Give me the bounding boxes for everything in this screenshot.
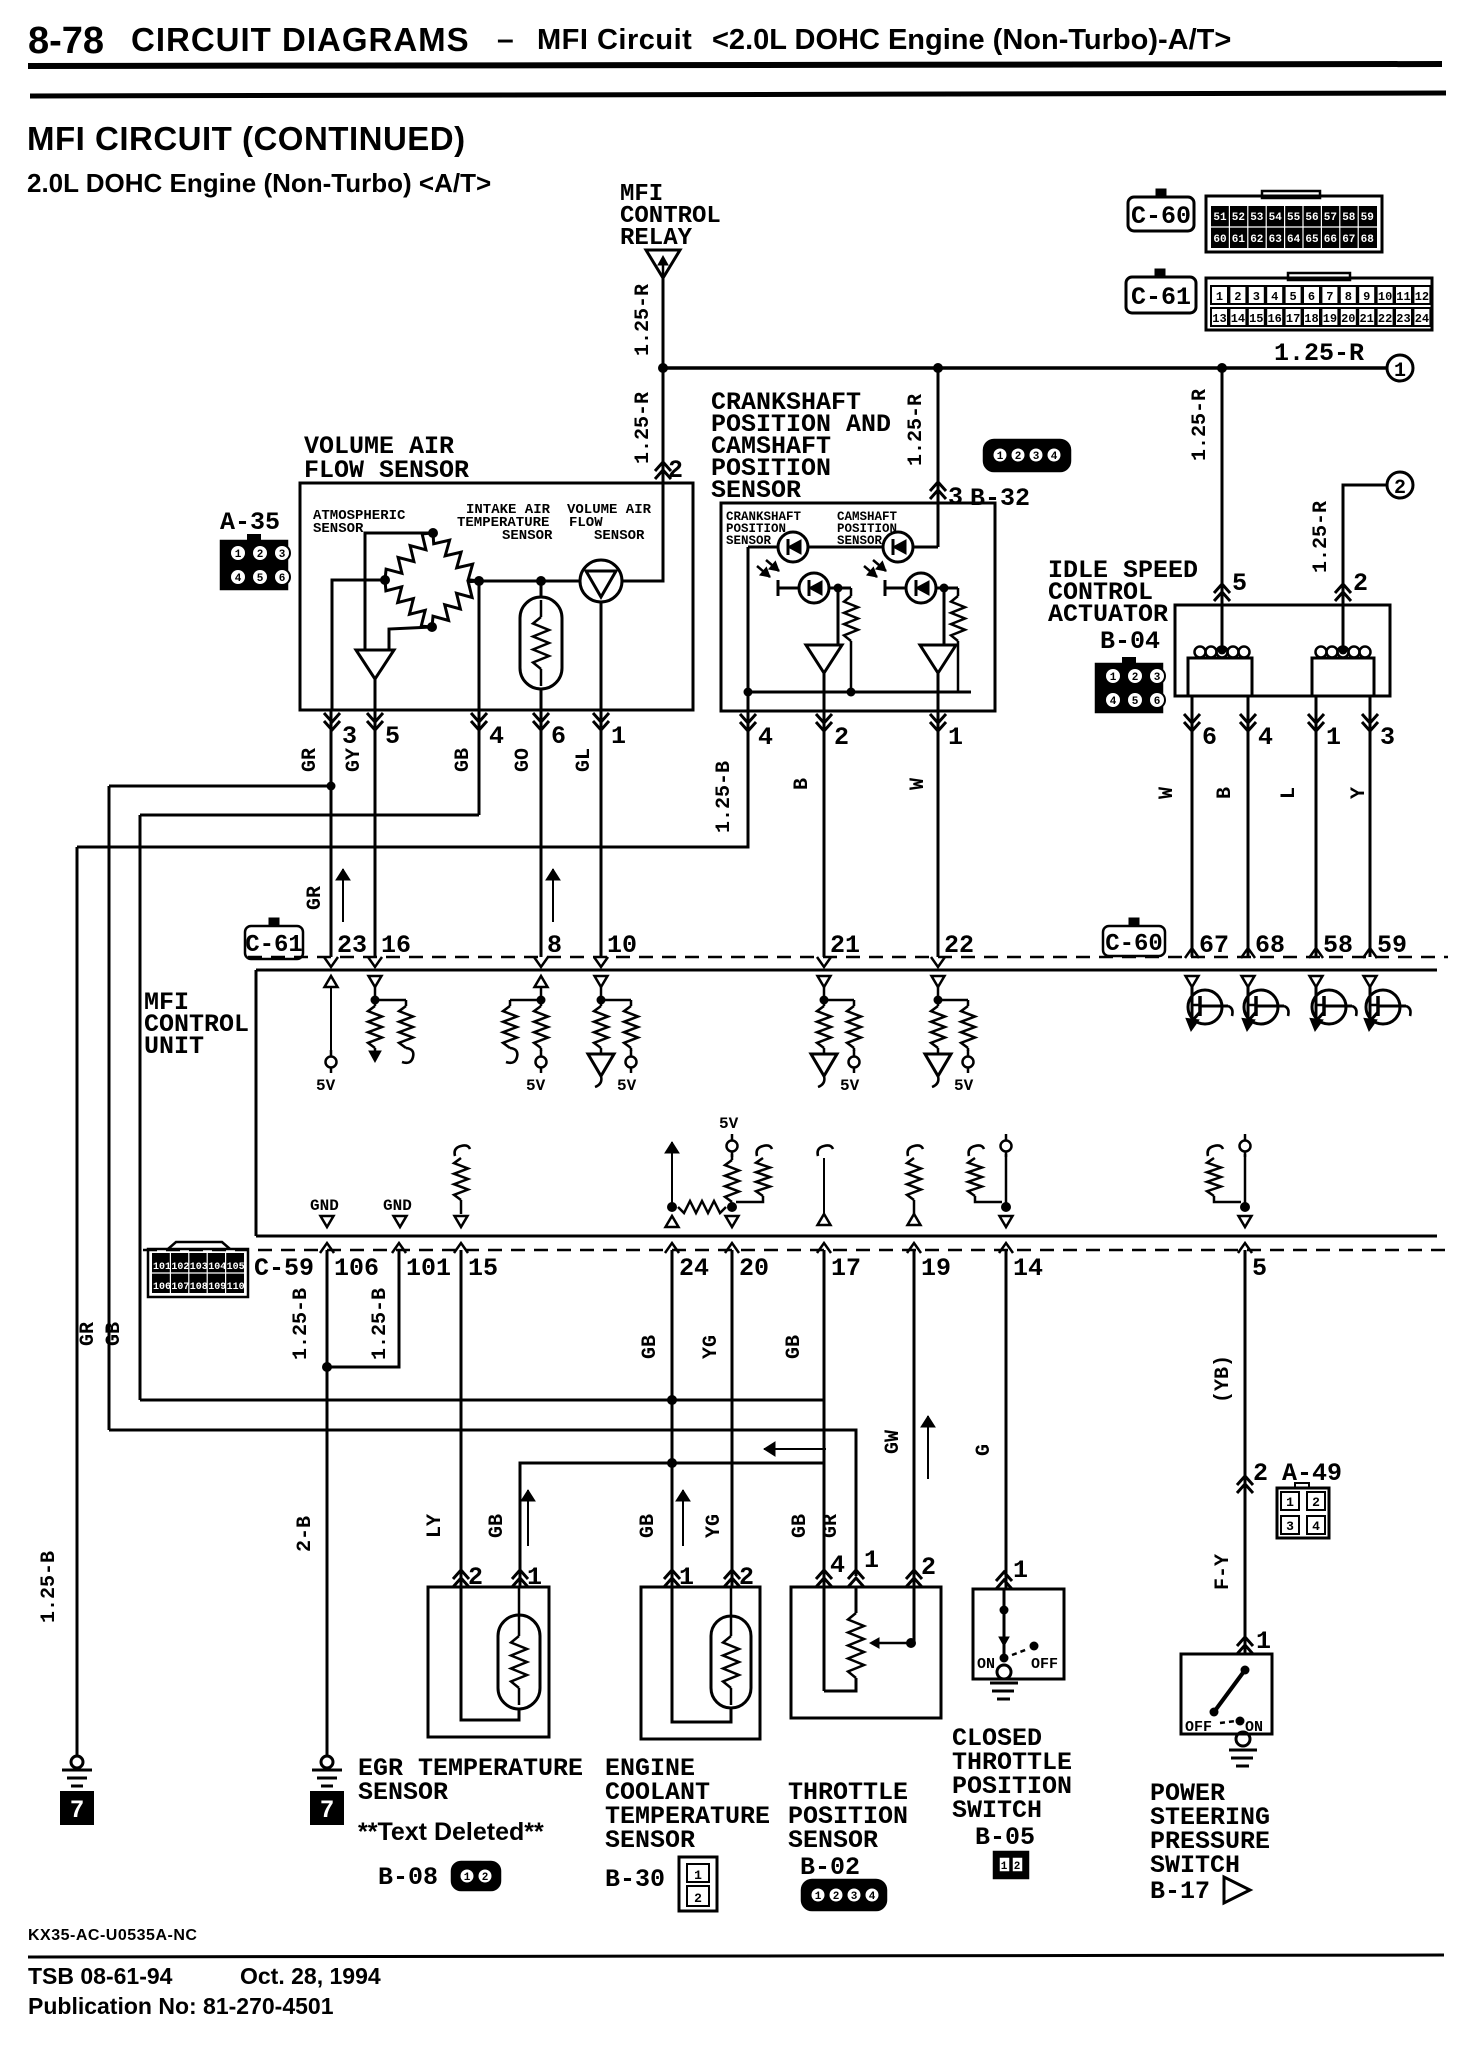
wire GY down to pin 16 bbox=[374, 710, 377, 957]
svg-text:16: 16 bbox=[1267, 312, 1281, 326]
svg-text:1: 1 bbox=[1013, 1556, 1028, 1585]
svg-text:GR: GR bbox=[299, 748, 322, 772]
wire GB VAF pin4 down bbox=[478, 710, 481, 815]
wire pin4 riser to LED bbox=[748, 546, 778, 549]
svg-text:21: 21 bbox=[830, 931, 860, 960]
power steering pressure switch box bbox=[1181, 1654, 1272, 1734]
coolant thermistor bbox=[711, 1587, 751, 1708]
svg-text:2.0L DOHC Engine (Non-Turbo) <: 2.0L DOHC Engine (Non-Turbo) <A/T> bbox=[27, 168, 491, 198]
wire resistor tap cam bbox=[944, 587, 958, 590]
CTS switch bbox=[999, 1589, 1039, 1663]
closed throttle position switch box bbox=[973, 1589, 1064, 1679]
svg-text:SWITCH: SWITCH bbox=[1150, 1851, 1240, 1880]
pin 1 arrow bbox=[1308, 714, 1324, 723]
svg-text:SENSOR: SENSOR bbox=[313, 521, 364, 537]
wire bridge top to op-amp bbox=[365, 533, 433, 650]
bridge node top bbox=[428, 528, 438, 538]
connector B-05 bbox=[994, 1852, 1028, 1878]
wire pin 20 YG down bbox=[731, 1250, 734, 1587]
svg-text:4: 4 bbox=[1312, 1519, 1320, 1534]
crankshaft camshaft sensor box bbox=[721, 503, 995, 711]
svg-text:Y: Y bbox=[1348, 787, 1371, 799]
svg-text:GR: GR bbox=[820, 1514, 843, 1538]
svg-text:15: 15 bbox=[1249, 312, 1263, 326]
svg-text:1.25-R: 1.25-R bbox=[632, 392, 655, 464]
bridge node left bbox=[380, 575, 390, 585]
control unit bottom edge bbox=[256, 1235, 1437, 1238]
svg-text:108: 108 bbox=[190, 1282, 208, 1293]
svg-text:1.25-R: 1.25-R bbox=[1310, 501, 1333, 573]
atmospheric sensor label bbox=[313, 508, 406, 537]
svg-text:4: 4 bbox=[1051, 451, 1058, 463]
connector label C-60 bbox=[1128, 189, 1194, 231]
EGR temperature sensor box bbox=[428, 1587, 549, 1737]
svg-text:2: 2 bbox=[1014, 1861, 1021, 1873]
PSP ground bbox=[1229, 1732, 1257, 1766]
svg-text:W: W bbox=[907, 778, 930, 790]
svg-text:60: 60 bbox=[1213, 234, 1226, 246]
svg-text:1.25-R: 1.25-R bbox=[1189, 389, 1212, 461]
svg-text:6: 6 bbox=[1154, 696, 1161, 708]
svg-text:GB: GB bbox=[452, 748, 475, 772]
junction bbox=[658, 363, 668, 373]
svg-text:1: 1 bbox=[948, 723, 963, 752]
svg-text:103: 103 bbox=[190, 1262, 208, 1273]
coolant pin 2 arrow bbox=[724, 1578, 740, 1587]
output transistor 67 bbox=[1186, 976, 1233, 1031]
svg-text:23: 23 bbox=[1396, 312, 1410, 326]
svg-text:3: 3 bbox=[1380, 723, 1395, 752]
wire GL down to pin 10 bbox=[600, 710, 603, 957]
pin 3 arrow bbox=[930, 490, 946, 499]
svg-text:13: 13 bbox=[1212, 312, 1226, 326]
C-59 pin 19 arrow bbox=[907, 1243, 921, 1253]
wire bridge right node bbox=[479, 580, 580, 583]
wire GR horizontal to TPS bbox=[109, 1430, 856, 1576]
wire pin 4 riser bbox=[747, 547, 750, 711]
MFI control unit label bbox=[144, 988, 249, 1061]
footer rule bbox=[28, 1955, 1444, 1957]
svg-text:YG: YG bbox=[700, 1335, 723, 1359]
svg-text:58: 58 bbox=[1342, 212, 1356, 224]
svg-text:ON: ON bbox=[977, 1656, 995, 1673]
svg-text:FLOW SENSOR: FLOW SENSOR bbox=[304, 456, 469, 485]
svg-text:B: B bbox=[791, 778, 814, 790]
signal arrow GW bbox=[927, 1416, 929, 1479]
svg-text:A-49: A-49 bbox=[1282, 1459, 1342, 1488]
connector B-04 bbox=[1096, 658, 1165, 712]
svg-text:5: 5 bbox=[1232, 569, 1247, 598]
ISC pin 3 wire stub bbox=[1369, 696, 1372, 711]
svg-text:101: 101 bbox=[153, 1262, 171, 1273]
svg-text:4: 4 bbox=[869, 1891, 876, 1903]
svg-text:22: 22 bbox=[944, 931, 974, 960]
wire node to comparator bbox=[837, 588, 840, 645]
crankshaft LED bbox=[778, 532, 808, 562]
svg-text:9: 9 bbox=[1363, 290, 1370, 304]
svg-text:57: 57 bbox=[1324, 212, 1337, 224]
camshaft photodiode bbox=[885, 573, 936, 603]
junction bbox=[322, 1362, 332, 1372]
throttle position sensor box bbox=[791, 1587, 941, 1718]
svg-text:C-60: C-60 bbox=[1131, 202, 1191, 231]
ground symbol 7 mid bbox=[311, 1792, 343, 1824]
svg-text:L: L bbox=[1278, 787, 1301, 799]
svg-text:4: 4 bbox=[1271, 290, 1278, 304]
C-59 pin 20 arrow bbox=[725, 1243, 739, 1253]
svg-text:GND: GND bbox=[310, 1197, 339, 1215]
pin 1 arrow bbox=[930, 714, 946, 723]
engine coolant temperature sensor box bbox=[641, 1587, 760, 1739]
svg-text:62: 62 bbox=[1250, 234, 1263, 246]
wire pin 15 LY down bbox=[460, 1250, 463, 1587]
svg-text:B-17: B-17 bbox=[1150, 1877, 1210, 1906]
svg-text:68: 68 bbox=[1361, 234, 1375, 246]
wire ISC pin4 down to 68 bbox=[1247, 711, 1250, 957]
junction bbox=[327, 782, 336, 791]
junction bbox=[536, 576, 546, 586]
svg-text:1: 1 bbox=[1326, 723, 1341, 752]
A-49 pin 2 arrow bbox=[1237, 1484, 1253, 1493]
svg-text:59: 59 bbox=[1377, 931, 1407, 960]
svg-text:G: G bbox=[973, 1444, 996, 1456]
svg-text:53: 53 bbox=[1250, 212, 1264, 224]
svg-text:GB: GB bbox=[789, 1514, 812, 1538]
crankshaft comparator bbox=[806, 645, 842, 673]
svg-text:GB: GB bbox=[639, 1335, 662, 1359]
wire resistor tap bbox=[838, 587, 851, 590]
wire bus to ISC pin 5 bbox=[1221, 368, 1224, 605]
svg-text:14: 14 bbox=[1231, 312, 1245, 326]
svg-text:OFF: OFF bbox=[1031, 1656, 1058, 1673]
C-59 pin 5 arrow bbox=[1238, 1243, 1252, 1253]
crankshaft and camshaft position sensor label bbox=[711, 388, 891, 505]
connector label C-61 bbox=[1126, 269, 1196, 313]
svg-text:24: 24 bbox=[679, 1254, 709, 1283]
volume air flow sensor box bbox=[300, 483, 693, 710]
pin 22 input network bbox=[925, 976, 975, 1087]
engine coolant temperature sensor label bbox=[605, 1754, 770, 1855]
wire pin 19 GW down bbox=[913, 1250, 916, 1587]
svg-text:104: 104 bbox=[208, 1262, 226, 1273]
footer TSB line bbox=[28, 1963, 381, 1989]
svg-text:4: 4 bbox=[489, 722, 504, 751]
pin 2 arrow bbox=[816, 714, 832, 723]
signal arrow GB EGR bbox=[527, 1490, 529, 1546]
svg-text:Oct. 28, 1994: Oct. 28, 1994 bbox=[240, 1963, 381, 1989]
header underline rule bbox=[28, 64, 1442, 66]
throttle position sensor label bbox=[788, 1778, 908, 1855]
connector B-32 bbox=[984, 440, 1070, 471]
svg-text:2: 2 bbox=[921, 1553, 936, 1582]
svg-text:CIRCUIT DIAGRAMS: CIRCUIT DIAGRAMS bbox=[131, 21, 470, 58]
svg-text:1.25-B: 1.25-B bbox=[38, 1551, 61, 1623]
svg-text:15: 15 bbox=[468, 1254, 498, 1283]
wire ISC pin3 down to 59 bbox=[1369, 711, 1372, 957]
svg-text:1: 1 bbox=[997, 451, 1004, 463]
wire GR left vertical bbox=[108, 786, 111, 1430]
wire bridge bottom to op-amp bbox=[389, 627, 432, 650]
svg-text:GB: GB bbox=[783, 1335, 806, 1359]
svg-text:19: 19 bbox=[1323, 312, 1337, 326]
pin 3 arrow bbox=[324, 713, 340, 722]
output transistor 58 bbox=[1310, 976, 1357, 1031]
svg-text:18: 18 bbox=[1304, 312, 1318, 326]
svg-text:1.25-R: 1.25-R bbox=[632, 284, 655, 356]
sensor ground bus bbox=[748, 691, 971, 694]
C-61 pin 10 arrow bbox=[594, 957, 608, 967]
svg-text:58: 58 bbox=[1323, 931, 1353, 960]
svg-text:–: – bbox=[497, 23, 514, 56]
svg-text:102: 102 bbox=[171, 1262, 189, 1273]
svg-text:51: 51 bbox=[1213, 212, 1227, 224]
svg-text:SENSOR: SENSOR bbox=[502, 528, 553, 544]
volume air flow sensor label bbox=[304, 432, 469, 485]
svg-text:4: 4 bbox=[1110, 696, 1117, 708]
svg-text:101: 101 bbox=[406, 1254, 451, 1283]
MFI control relay off-page triangle bbox=[646, 250, 680, 278]
svg-text:59: 59 bbox=[1361, 212, 1374, 224]
camshaft position sensor inner label bbox=[837, 510, 898, 548]
svg-text:C-60: C-60 bbox=[1105, 931, 1163, 958]
svg-text:3: 3 bbox=[948, 483, 963, 512]
wire 1.25-B left vertical bbox=[76, 847, 79, 1756]
wire pin 24 GB down bbox=[671, 1250, 674, 1587]
C-61 pin 23 arrow bbox=[324, 957, 338, 967]
C-59 pin 17 arrow bbox=[817, 1243, 831, 1253]
pin 23 pull-up to 5V bbox=[325, 976, 338, 1073]
svg-text:1: 1 bbox=[235, 549, 242, 561]
svg-text:24: 24 bbox=[1415, 312, 1429, 326]
svg-text:2: 2 bbox=[1353, 569, 1368, 598]
svg-text:1: 1 bbox=[1394, 360, 1406, 383]
intake air temperature sensor label bbox=[457, 502, 553, 544]
svg-text:GR: GR bbox=[304, 886, 327, 910]
EGR thermistor bbox=[498, 1587, 540, 1709]
bridge node bottom bbox=[427, 622, 437, 632]
svg-text:SENSOR: SENSOR bbox=[358, 1778, 448, 1807]
junction bbox=[933, 363, 943, 373]
svg-text:2: 2 bbox=[1132, 672, 1139, 684]
EGR pin 1 arrow bbox=[512, 1578, 528, 1587]
svg-text:17: 17 bbox=[1286, 312, 1300, 326]
svg-text:63: 63 bbox=[1269, 234, 1283, 246]
svg-text:GB: GB bbox=[486, 1514, 509, 1538]
svg-text:54: 54 bbox=[1269, 212, 1283, 224]
pin 14 pull-up bbox=[968, 1134, 1013, 1227]
junction bbox=[940, 584, 949, 593]
svg-text:3: 3 bbox=[279, 549, 286, 561]
svg-text:C-59: C-59 bbox=[254, 1254, 314, 1283]
wire photodiode node cam bbox=[936, 587, 944, 590]
svg-text:SWITCH: SWITCH bbox=[952, 1796, 1042, 1825]
connector plane C-59 dashed bbox=[143, 1249, 1448, 1252]
idle speed control actuator label bbox=[1048, 556, 1198, 629]
svg-text:6: 6 bbox=[1308, 290, 1315, 304]
junction bbox=[847, 688, 856, 697]
svg-text:8-78: 8-78 bbox=[28, 20, 104, 62]
svg-text:4: 4 bbox=[1258, 723, 1273, 752]
svg-text:C-61: C-61 bbox=[245, 932, 303, 959]
svg-text:2: 2 bbox=[257, 549, 264, 561]
connector C-61 pin grid bbox=[1206, 278, 1432, 330]
svg-text:1.25-B: 1.25-B bbox=[369, 1288, 392, 1360]
svg-text:1: 1 bbox=[864, 1546, 879, 1575]
svg-text:1: 1 bbox=[464, 1872, 471, 1884]
wire pin 14 G down bbox=[1005, 1250, 1008, 1589]
pin 4 arrow bbox=[740, 714, 756, 723]
svg-text:1: 1 bbox=[1110, 672, 1117, 684]
wire node to comparator cam bbox=[943, 588, 946, 645]
wire comparator to pin 2 bbox=[823, 673, 826, 711]
svg-text:GO: GO bbox=[512, 748, 535, 772]
TPS wiper bbox=[870, 1587, 916, 1648]
coil body A bbox=[1188, 605, 1252, 696]
svg-text:MFI Circuit: MFI Circuit bbox=[537, 24, 692, 56]
wire junction to intake air temp sensor bbox=[540, 581, 543, 598]
wire photodiode node bbox=[829, 587, 838, 590]
control unit left edge bbox=[255, 970, 258, 1236]
pin 19 resistor bbox=[907, 1145, 923, 1225]
svg-text:23: 23 bbox=[337, 931, 367, 960]
C-59 pin 24 arrow bbox=[665, 1243, 679, 1253]
svg-text:106: 106 bbox=[153, 1282, 171, 1293]
C-60 pin 59 arrow bbox=[1363, 948, 1377, 958]
wire B down to pin 21 bbox=[823, 711, 826, 957]
ISC pin 1 wire stub bbox=[1315, 696, 1318, 711]
svg-text:2: 2 bbox=[694, 1891, 702, 1906]
EGR inner wiring bbox=[461, 1587, 519, 1720]
svg-text:5V: 5V bbox=[954, 1077, 974, 1095]
intake air temperature sensor thermistor bbox=[520, 597, 562, 689]
svg-text:GB: GB bbox=[637, 1514, 660, 1538]
svg-text:SENSOR: SENSOR bbox=[711, 476, 801, 505]
atmospheric sensor bridge resistor bottom-left bbox=[385, 580, 432, 627]
wire thermistor to pin 6 bbox=[540, 688, 543, 710]
pin 17 stub bbox=[818, 1145, 834, 1225]
connector C-60 pin grid bbox=[1206, 196, 1382, 252]
svg-text:10: 10 bbox=[607, 931, 637, 960]
svg-text:B-05: B-05 bbox=[975, 1823, 1035, 1852]
svg-text:6: 6 bbox=[551, 722, 566, 751]
junction bbox=[834, 584, 843, 593]
page header title bbox=[28, 20, 1231, 62]
svg-text:RELAY: RELAY bbox=[620, 225, 693, 252]
signal arrow GB coolant bbox=[682, 1490, 684, 1546]
svg-text:5V: 5V bbox=[526, 1077, 546, 1095]
svg-text:4: 4 bbox=[830, 1551, 845, 1580]
header second rule bbox=[30, 93, 1446, 96]
crankshaft photodiode bbox=[778, 573, 829, 603]
svg-text:7: 7 bbox=[1326, 290, 1333, 304]
svg-text:17: 17 bbox=[831, 1254, 861, 1283]
atmospheric sensor bridge resistor top-left bbox=[385, 533, 433, 580]
TPS potentiometer bbox=[824, 1587, 864, 1691]
svg-text:5V: 5V bbox=[617, 1077, 637, 1095]
junction bbox=[1217, 363, 1227, 373]
pin 6 arrow bbox=[533, 713, 549, 722]
svg-text:1.25-B: 1.25-B bbox=[290, 1288, 313, 1360]
svg-text:ACTUATOR: ACTUATOR bbox=[1048, 600, 1168, 629]
pin 15 resistor bbox=[454, 1145, 470, 1227]
svg-text:GL: GL bbox=[573, 748, 596, 772]
connector label C-60 mid bbox=[1103, 918, 1165, 958]
wire crank pin4 1.25-B down bbox=[77, 711, 748, 847]
pin 2 arrow bbox=[655, 470, 671, 479]
TPS pin 2 arrow bbox=[906, 1578, 922, 1587]
junction bbox=[667, 1458, 677, 1468]
ISC coil B bbox=[1312, 605, 1374, 696]
C-59 pin 14 arrow bbox=[999, 1243, 1013, 1253]
wire GB branch left bbox=[140, 814, 479, 817]
junction bbox=[667, 1395, 677, 1405]
pin 4 arrow bbox=[1240, 714, 1256, 723]
svg-text:7: 7 bbox=[70, 1796, 83, 1823]
svg-text:19: 19 bbox=[921, 1254, 951, 1283]
C-61 pin 22 arrow bbox=[931, 957, 945, 967]
svg-text:55: 55 bbox=[1287, 212, 1301, 224]
pin 5 pull-up bbox=[1207, 1134, 1252, 1227]
pin 16 input network bbox=[368, 976, 413, 1063]
svg-text:2: 2 bbox=[1394, 477, 1406, 500]
wire ISC pin6 down to 67 bbox=[1191, 711, 1194, 957]
CTS pin 1 arrow bbox=[996, 1580, 1012, 1589]
svg-text:1: 1 bbox=[1286, 1495, 1294, 1510]
C-61 pin 21 arrow bbox=[817, 957, 831, 967]
CTS ground bbox=[990, 1665, 1018, 1699]
svg-text:LY: LY bbox=[424, 1514, 447, 1538]
pin 4 arrow bbox=[471, 713, 487, 722]
svg-text:A-35: A-35 bbox=[220, 508, 280, 537]
svg-text:8: 8 bbox=[1345, 290, 1352, 304]
C-60 pin 67 arrow bbox=[1185, 948, 1199, 958]
svg-text:B: B bbox=[1214, 787, 1237, 799]
connector plane C-61 dashed bbox=[248, 956, 1448, 959]
wire pin 3 inside bbox=[937, 503, 940, 547]
wire GO down to pin 8 bbox=[540, 710, 543, 957]
svg-text:2: 2 bbox=[834, 723, 849, 752]
camshaft light arrows bbox=[864, 566, 877, 577]
svg-text:1: 1 bbox=[1001, 1861, 1008, 1873]
svg-text:8: 8 bbox=[547, 931, 562, 960]
wire W down to pin 22 bbox=[937, 711, 940, 957]
EGR temperature sensor label bbox=[358, 1754, 583, 1807]
svg-text:1: 1 bbox=[694, 1868, 702, 1883]
svg-text:2: 2 bbox=[1253, 1459, 1268, 1488]
svg-text:7: 7 bbox=[320, 1796, 333, 1823]
svg-text:21: 21 bbox=[1359, 312, 1373, 326]
wire pin 17 GB down bbox=[823, 1250, 826, 1587]
pin 3 arrow bbox=[1362, 714, 1378, 723]
svg-text:SENSOR: SENSOR bbox=[788, 1826, 878, 1855]
crankshaft load resistor bbox=[844, 588, 858, 692]
coolant inner wiring bbox=[672, 1587, 731, 1722]
svg-text:5: 5 bbox=[1132, 696, 1139, 708]
svg-text:W: W bbox=[1156, 787, 1179, 799]
svg-text:4: 4 bbox=[235, 573, 242, 585]
svg-text:B-08: B-08 bbox=[378, 1863, 438, 1892]
pin 1 arrow bbox=[593, 713, 609, 722]
svg-text:OFF: OFF bbox=[1185, 1719, 1212, 1736]
output transistor 59 bbox=[1364, 976, 1411, 1031]
svg-text:GY: GY bbox=[343, 748, 366, 772]
wire GR VAF pin3 down bbox=[330, 710, 333, 957]
svg-text:UNIT: UNIT bbox=[144, 1032, 204, 1061]
signal arrow GO bbox=[552, 869, 554, 922]
svg-text:B-30: B-30 bbox=[605, 1865, 665, 1894]
connector B-08 bbox=[452, 1862, 500, 1890]
svg-text:1: 1 bbox=[815, 1891, 822, 1903]
